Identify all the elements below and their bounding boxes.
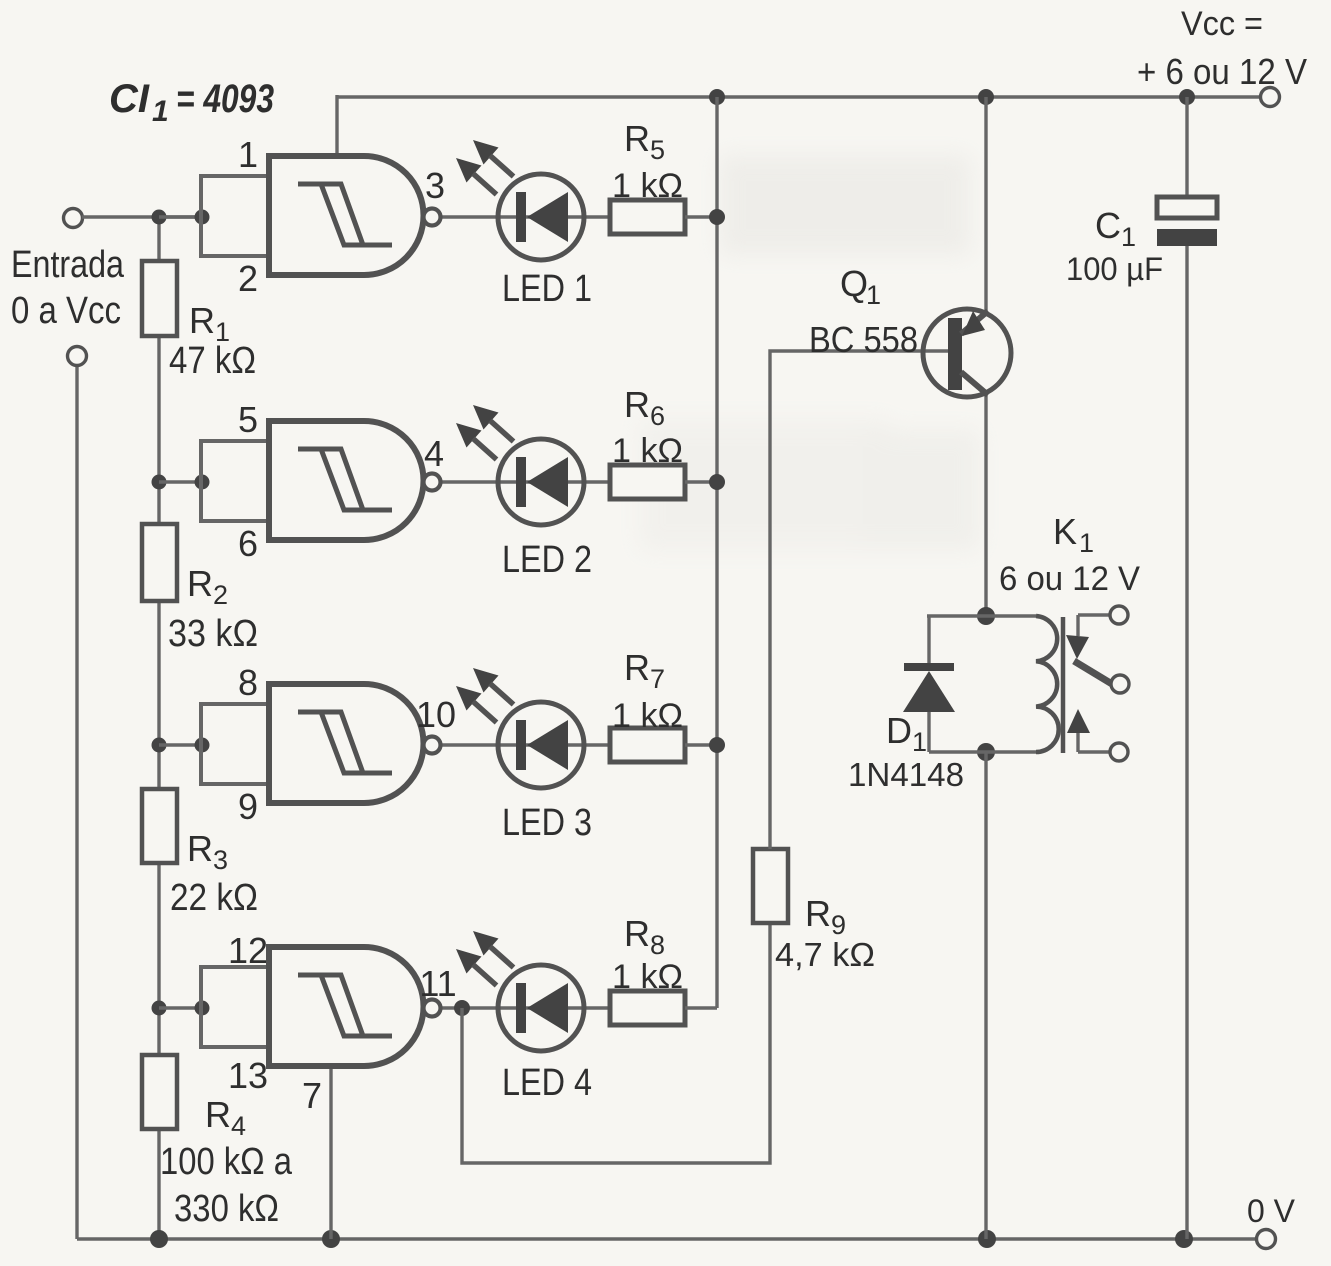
svg-text:R: R [205,1094,231,1135]
wire bus to gate input bracket [159,215,202,218]
wire input bracket gate U1d [199,967,203,1047]
node 0V junction C1 [1175,1230,1193,1248]
NAND gate U1c CI1 4093 [269,684,424,803]
resistor R9 4,7k [753,849,788,923]
svg-text:1: 1 [866,280,881,310]
svg-text:LED 4: LED 4 [502,1062,592,1104]
svg-text:8: 8 [650,930,665,960]
svg-text:1: 1 [152,95,169,128]
resistor R5 1 k [610,200,685,234]
svg-text:K: K [1053,511,1077,552]
wire input lower terminal drop [75,356,78,1239]
svg-text:5: 5 [650,135,665,165]
svg-text:1 kΩ: 1 kΩ [612,697,683,735]
svg-text:R: R [189,300,215,341]
inverter bubble gate U1b output pin 4 [424,474,441,491]
svg-text:1: 1 [1079,528,1094,558]
resistor R8 1 k [610,991,685,1025]
svg-text:6: 6 [650,401,665,431]
wire coil bottom [929,750,1036,753]
svg-text:6: 6 [238,523,258,564]
NAND gate U1d CI1 4093 [269,947,424,1066]
relay contact NO arrow [1078,750,1110,753]
wire gate output to LED 3 and R7 [441,743,611,746]
svg-text:100 kΩ a: 100 kΩ a [160,1141,293,1183]
NAND gate U1b CI1 4093 [269,421,424,540]
wire relay bottom to 0V [984,752,987,1239]
svg-text:R: R [624,913,650,954]
inverter bubble gate U1a output pin 3 [424,209,441,226]
svg-text:33 kΩ: 33 kΩ [168,613,258,655]
node Vcc junction Q1 emitter [978,89,994,105]
resistor R4 [142,1055,177,1129]
wire coil top [927,614,1036,617]
svg-text:LED 1: LED 1 [502,268,592,310]
LED 4 emission arrows [473,931,499,956]
svg-text:R: R [624,647,650,688]
svg-text:2: 2 [238,258,258,299]
wire IC pin14 Vcc stub [335,95,338,158]
wire R9 to Q1 base [770,351,948,849]
svg-text:11: 11 [419,963,456,1004]
wire Vcc top rail [337,95,1260,98]
svg-text:0 V: 0 V [1247,1193,1296,1229]
svg-text:12: 12 [228,930,268,971]
LED 3 emission arrows [473,668,499,693]
svg-text:8: 8 [238,662,258,703]
wire 0V bottom rail [77,1237,1257,1240]
wire Q1 collector down to relay [984,394,987,616]
node input junction row 3 on divider bus [152,738,167,753]
node input junction row 1 on divider bus [152,210,167,225]
node input junction row 2 on divider bus [152,475,167,490]
svg-text:R: R [624,118,650,159]
wire input bracket gate U1a [199,176,203,256]
relay contact NC arrow [1078,613,1110,616]
schmitt trigger hysteresis symbol gate U1c [298,712,363,773]
svg-text:= 4093: = 4093 [176,77,274,121]
svg-text:R: R [187,563,213,604]
schmitt trigger hysteresis symbol gate U1b [298,449,363,510]
svg-text:1: 1 [238,134,258,175]
schmitt trigger hysteresis symbol gate U1d [298,975,363,1036]
relay K1 armature bar [1061,617,1066,753]
resistor R2 [142,524,177,601]
LED LED2 [498,439,584,525]
node gate U1d output junction to R9 [454,1000,470,1016]
node input junction row 4 on divider bus [152,1001,167,1016]
LED LED1 [498,174,584,260]
wire bus to gate input bracket [159,480,202,483]
svg-text:R: R [624,384,650,425]
svg-text:7: 7 [302,1075,322,1116]
svg-text:R: R [805,893,831,934]
node bus junction row 2 [709,474,725,490]
relay contact common lever [1074,661,1112,684]
svg-text:5: 5 [238,399,258,440]
wire C1 top [1185,97,1188,199]
LED 1 emission arrows [473,140,499,165]
svg-text:330 kΩ: 330 kΩ [174,1188,279,1230]
svg-text:13: 13 [228,1055,268,1096]
wire C1 bottom to 0V [1185,245,1188,1239]
transistor Q1 BC558 [923,309,1011,397]
LED 2 emission arrows [473,405,499,430]
svg-text:C: C [1095,205,1121,246]
svg-text:1N4148: 1N4148 [848,756,964,793]
svg-text:BC 558: BC 558 [809,319,918,360]
node gate input bracket junction [195,210,210,225]
resistor R7 1 k [610,728,685,762]
svg-text:1 kΩ: 1 kΩ [612,432,683,470]
terminal Entrada upper [64,209,83,228]
terminal relay NO [1110,743,1128,761]
svg-text:6 ou 12 V: 6 ou 12 V [999,560,1140,598]
wire Entrada to gate input [82,215,202,218]
svg-text:0 a Vcc: 0 a Vcc [11,290,121,332]
wire gate output to LED 1 and R5 [441,215,611,218]
wire gate U1d output down to R9 [462,923,770,1163]
node gate input bracket junction [195,738,210,753]
terminal relay NC [1110,606,1128,624]
svg-text:Q: Q [840,263,868,304]
terminal Entrada lower [68,347,87,366]
node 0V junction IC pin7 [322,1230,340,1248]
relay K1 coil [1036,616,1059,752]
svg-text:4: 4 [424,433,444,474]
node bus junction row 3 [709,737,725,753]
NAND gate U1a CI1 4093 [269,156,424,275]
svg-text:1: 1 [1121,222,1136,252]
svg-text:+ 6 ou 12 V: + 6 ou 12 V [1137,51,1307,92]
svg-text:3: 3 [425,165,445,206]
wire Q1 emitter to Vcc [984,97,987,313]
wire R7 to bus [685,743,717,746]
node relay coil top junction [977,607,995,625]
svg-text:10: 10 [416,694,456,735]
node gate input bracket junction [195,1001,210,1016]
wire R6 to bus [685,480,717,483]
svg-text:2: 2 [213,580,228,610]
wire input bracket gate U1b [199,441,203,521]
node gate input bracket junction [195,475,210,490]
wire gate output to LED 2 and R6 [441,480,611,483]
schmitt trigger hysteresis symbol gate U1a [298,184,363,245]
node bus junction row 1 [709,209,725,225]
svg-text:3: 3 [213,845,228,875]
svg-text:R: R [187,828,213,869]
LED LED3 [498,702,584,788]
svg-text:47 kΩ: 47 kΩ [169,340,256,382]
wire input divider bus [157,217,160,1239]
svg-text:CI: CI [109,77,150,121]
wire gate output to LED 4 and R8 [441,1006,611,1009]
wire LED resistor bus [715,97,718,1008]
svg-text:22 kΩ: 22 kΩ [170,877,258,919]
diode D1 1N4148 [927,616,930,664]
svg-text:4: 4 [231,1111,246,1141]
inverter bubble gate U1d output pin 11 [424,1000,441,1017]
svg-text:9: 9 [238,786,258,827]
svg-text:1 kΩ: 1 kΩ [612,167,683,205]
terminal relay common [1111,675,1129,693]
terminal 0V [1257,1230,1276,1249]
svg-text:LED 3: LED 3 [502,802,592,844]
svg-text:1: 1 [912,727,927,757]
svg-text:100 µF: 100 µF [1066,251,1163,287]
node 0V junction relay [978,1230,996,1248]
LED LED4 [498,965,584,1051]
resistor R1 [142,261,177,336]
capacitor C1 100uF electrolytic [1157,197,1217,218]
node Vcc junction C1 [1179,89,1195,105]
wire IC pin7 to 0V [329,1066,332,1239]
svg-text:D: D [886,710,912,751]
node relay coil bottom junction [977,743,995,761]
resistor R3 [142,789,177,863]
wire R8 to bus [685,1006,717,1009]
terminal Vcc [1261,88,1280,107]
svg-text:1 kΩ: 1 kΩ [612,958,683,996]
resistor R6 1 k [610,465,685,499]
svg-text:4,7 kΩ: 4,7 kΩ [775,936,875,973]
wire R5 to bus [685,215,717,218]
wire bus to gate input bracket [159,1006,202,1009]
inverter bubble gate U1c output pin 10 [424,737,441,754]
svg-text:7: 7 [650,664,665,694]
node 0V junction divider bus [150,1230,168,1248]
svg-text:LED 2: LED 2 [502,539,592,581]
wire bus to gate input bracket [159,743,202,746]
wire input bracket gate U1c [199,704,203,784]
node Vcc junction LED bus [709,89,725,105]
svg-text:Entrada: Entrada [11,244,125,286]
svg-text:Vcc =: Vcc = [1181,5,1263,43]
